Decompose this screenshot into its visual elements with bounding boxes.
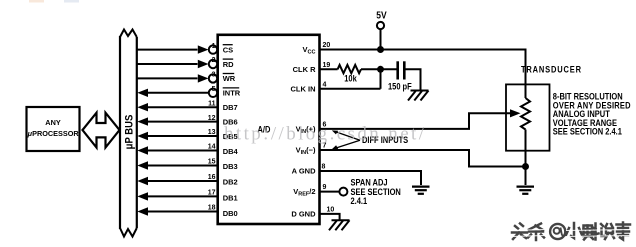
microprocessor box ANY uPROCESSOR xyxy=(27,107,80,151)
svg-text:8: 8 xyxy=(322,163,326,170)
wire DB2 xyxy=(146,180,218,182)
wire capacitor to ground xyxy=(406,69,421,90)
svg-text:9: 9 xyxy=(323,184,327,191)
svg-text:DB3: DB3 xyxy=(223,162,238,171)
wire DB3 xyxy=(146,165,218,167)
svg-text:INTR: INTR xyxy=(223,89,241,98)
wire DB5 xyxy=(146,135,218,137)
svg-text:TRANSDUCER: TRANSDUCER xyxy=(521,65,582,75)
arrowhead DB4 xyxy=(137,146,148,154)
arrowhead DB5 xyxy=(137,132,148,140)
wire A GND to ground xyxy=(320,171,422,185)
svg-text:DB2: DB2 xyxy=(223,178,238,187)
arrowhead DB2 xyxy=(137,177,148,185)
wire CS xyxy=(137,49,198,51)
wire VREF/2 stub xyxy=(320,191,340,193)
inversion bubble pin1 xyxy=(209,45,217,53)
earth ground transducer xyxy=(517,187,535,194)
wire CLK IN xyxy=(320,88,381,90)
svg-text:4: 4 xyxy=(323,81,327,88)
svg-text:SEE SECTION 2.4.1: SEE SECTION 2.4.1 xyxy=(553,127,622,137)
wire node to ground xyxy=(525,167,527,186)
svg-text:18: 18 xyxy=(208,205,216,212)
svg-text:A GND: A GND xyxy=(292,167,316,176)
svg-text:WR: WR xyxy=(223,74,236,83)
wire DB6 xyxy=(146,121,218,123)
wire VIN(-) to transducer bottom xyxy=(320,150,526,167)
transducer box xyxy=(506,84,550,150)
svg-text:CLK IN: CLK IN xyxy=(291,84,316,93)
svg-text:16: 16 xyxy=(208,174,216,181)
svg-text:μPROCESSOR: μPROCESSOR xyxy=(27,129,80,138)
pin label WR xyxy=(223,74,236,84)
A/D converter U1 body xyxy=(218,35,320,224)
arrowhead DB0 xyxy=(137,207,148,215)
arrowhead RD xyxy=(198,60,209,68)
uP BUS xyxy=(120,30,137,237)
label DIFF INPUTS xyxy=(332,130,409,149)
wire VCC pin20 to transducer xyxy=(320,50,526,99)
svg-text:DB1: DB1 xyxy=(223,193,238,202)
wire DB7 xyxy=(146,106,218,108)
svg-text:13: 13 xyxy=(208,129,216,136)
wire resistor to clock node xyxy=(361,68,397,70)
svg-text:CLK R: CLK R xyxy=(293,65,316,74)
arrowhead DB1 xyxy=(137,192,148,200)
svg-text:DB0: DB0 xyxy=(223,209,238,218)
potentiometer RT zigzag xyxy=(521,98,530,130)
watermark smudge 1 xyxy=(29,0,44,3)
svg-text:17: 17 xyxy=(208,190,216,197)
svg-text:15: 15 xyxy=(208,159,216,166)
svg-text:DB4: DB4 xyxy=(223,147,239,156)
wire DB0 xyxy=(146,211,218,213)
svg-text:14: 14 xyxy=(208,144,216,151)
svg-text:1: 1 xyxy=(212,43,216,50)
svg-text:CS: CS xyxy=(223,45,233,54)
watermark white streaks xyxy=(511,230,632,237)
svg-text:20: 20 xyxy=(323,42,331,49)
resistor R1 10k xyxy=(338,65,361,73)
svg-text:μP BUS: μP BUS xyxy=(124,115,136,150)
inversion bubble pin3 xyxy=(209,74,217,82)
svg-text:DB7: DB7 xyxy=(223,103,238,112)
wire WR xyxy=(137,77,198,79)
inversion bubble pin2 xyxy=(209,60,217,68)
svg-text:10: 10 xyxy=(327,206,335,213)
label SPAN ADJ xyxy=(351,178,401,206)
earth ground A GND xyxy=(412,187,430,194)
svg-text:11: 11 xyxy=(208,100,216,107)
svg-text:10k: 10k xyxy=(344,74,357,84)
watermark smudge 2 xyxy=(64,0,79,3)
inversion bubble pin5 xyxy=(209,89,217,97)
pin label RD xyxy=(223,59,234,69)
terminal circle VREF/2 xyxy=(339,188,347,196)
wire VIN(+) to transducer wiper xyxy=(320,113,512,129)
wire CLK R to resistor xyxy=(320,68,338,70)
pin label INTR xyxy=(223,88,241,98)
svg-text:19: 19 xyxy=(323,62,331,69)
svg-text:5: 5 xyxy=(212,86,216,93)
arrowhead DB7 xyxy=(137,103,148,111)
junction pot/VIN(-) xyxy=(522,163,529,170)
svg-text:ANY: ANY xyxy=(45,118,61,127)
wire DB1 xyxy=(146,195,218,197)
watermark toutiao @ xyxy=(550,224,565,239)
svg-text:12: 12 xyxy=(208,115,216,122)
svg-text:2.4.1: 2.4.1 xyxy=(351,196,368,206)
arrowhead wiper xyxy=(510,109,521,117)
svg-text:5V: 5V xyxy=(376,10,387,21)
pin label CS xyxy=(223,45,233,55)
junction clock node xyxy=(377,66,384,73)
wire DB4 xyxy=(146,150,218,152)
arrowhead WR xyxy=(198,74,209,82)
note text 8-BIT RESOLUTION xyxy=(553,92,631,137)
svg-text:2: 2 xyxy=(212,57,216,64)
watermark toutiao logo xyxy=(512,223,630,241)
svg-text:150 pF: 150 pF xyxy=(388,82,412,92)
svg-text:3: 3 xyxy=(212,72,216,79)
arrowhead CS xyxy=(198,45,209,53)
svg-text:D GND: D GND xyxy=(291,209,316,218)
capacitor C1 150pF xyxy=(398,61,405,79)
wire pot bottom to node xyxy=(525,130,527,167)
arrowhead DB6 xyxy=(137,117,148,125)
wire D GND to ground xyxy=(320,214,340,220)
chassis ground D GND xyxy=(329,220,350,230)
bidirectional bus arrow xyxy=(83,113,120,148)
5V supply terminal xyxy=(376,10,387,50)
junction 5V/VCC xyxy=(377,46,384,53)
chassis ground at capacitor xyxy=(408,91,429,101)
svg-text:http://blog.csdn.net/: http://blog.csdn.net/ xyxy=(224,124,426,145)
arrowhead INTR xyxy=(137,89,148,97)
arrowhead DB3 xyxy=(137,161,148,169)
wire RD xyxy=(137,63,198,65)
wire node to CLK IN xyxy=(380,69,382,89)
svg-text:RD: RD xyxy=(223,60,234,69)
wire INTR xyxy=(146,92,209,94)
svg-text:VIN(−): VIN(−) xyxy=(296,146,316,157)
